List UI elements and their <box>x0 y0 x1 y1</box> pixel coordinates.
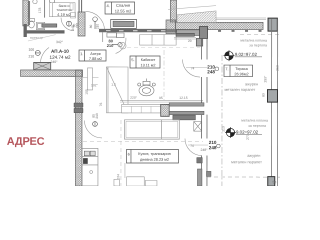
door entrance arc <box>40 47 49 66</box>
door bathroom arc <box>61 18 74 31</box>
band white ticks <box>106 30 197 33</box>
svg-text:74: 74 <box>190 144 194 148</box>
wall east double lines <box>201 39 207 187</box>
svg-text:248: 248 <box>209 145 217 150</box>
svg-text:220°: 220° <box>130 96 138 100</box>
wall cabinet south line <box>120 100 203 102</box>
svg-text:260: 260 <box>276 65 280 71</box>
wall piers <box>74 103 83 107</box>
svg-text:7.: 7. <box>225 67 228 71</box>
dashed lines kitchen <box>83 140 203 142</box>
svg-text:240°: 240° <box>51 60 59 64</box>
wall hatch vertical kitchen west <box>75 70 82 186</box>
svg-text:12.15: 12.15 <box>179 96 187 100</box>
window bars living east <box>169 103 204 106</box>
window bars bedroom east <box>176 33 194 36</box>
svg-text:5.: 5. <box>131 58 134 62</box>
sofa <box>122 104 161 113</box>
label bathroom <box>49 0 75 17</box>
dining table <box>124 120 179 139</box>
svg-text:104: 104 <box>116 174 120 180</box>
svg-text:Спалня: Спалня <box>116 3 130 8</box>
svg-text:9.02=97.02: 9.02=97.02 <box>235 52 258 57</box>
dresser bedroom <box>111 19 137 28</box>
svg-text:155: 155 <box>85 89 89 95</box>
wall top right vertical <box>166 0 177 34</box>
svg-text:метален парапет: метален парапет <box>225 87 256 92</box>
benchmark bottom <box>225 127 262 138</box>
svg-text:за пергола: за пергола <box>249 43 267 47</box>
corner block NE <box>200 27 208 39</box>
svg-text:9.02=97.02: 9.02=97.02 <box>236 130 259 135</box>
bottom tables <box>124 163 126 178</box>
railing right double lines <box>271 19 273 186</box>
svg-text:метален парапет: метален парапет <box>231 159 262 164</box>
door bedroom arc <box>86 11 105 30</box>
antre shelves <box>103 32 124 42</box>
svg-text:АДРЕС: АДРЕС <box>7 136 45 148</box>
wall L dark elevator core <box>24 24 65 37</box>
wall hatch band bottom-left <box>21 70 83 77</box>
svg-text:100: 100 <box>29 48 35 52</box>
svg-text:80: 80 <box>261 93 265 97</box>
svg-text:102°: 102° <box>91 83 99 87</box>
terrace bottom left blocks <box>197 158 203 164</box>
svg-text:270: 270 <box>246 134 250 140</box>
window box east <box>194 122 202 132</box>
corridor line <box>82 77 99 79</box>
svg-text:20: 20 <box>188 39 192 43</box>
svg-text:13.11 м2: 13.11 м2 <box>141 64 156 68</box>
label antre <box>79 50 106 61</box>
svg-text:74: 74 <box>191 67 195 71</box>
wall terrace north checkered band <box>176 22 264 29</box>
label cabinet room <box>130 56 160 68</box>
desk cabinet room <box>120 34 177 49</box>
wall bathroom inner vertical <box>44 0 46 18</box>
svg-text:210: 210 <box>95 113 99 119</box>
entrance threshold X box <box>34 62 51 69</box>
door antre-cabinet <box>116 38 126 54</box>
wardrobe with diagonal <box>106 67 128 113</box>
svg-text:26.96м2: 26.96м2 <box>234 72 248 76</box>
wall bedroom west top lines <box>78 0 80 12</box>
svg-text:210: 210 <box>107 43 114 48</box>
svg-text:248°: 248° <box>200 148 208 152</box>
kitchen counter <box>82 148 98 186</box>
wall bedroom west checkered <box>78 12 85 36</box>
stove symbol <box>138 78 156 95</box>
svg-text:290°: 290° <box>264 75 268 83</box>
door terrace 2 <box>185 139 202 156</box>
svg-text:метална колона: метална колона <box>240 39 267 43</box>
terrace dashed south <box>207 176 280 178</box>
column bottom right <box>268 177 275 187</box>
thin double lines top right <box>216 17 266 19</box>
wall gray band below <box>177 30 204 36</box>
bath fixtures right <box>71 12 76 18</box>
svg-text:за пергола: за пергола <box>248 124 266 128</box>
svg-text:дневна 28.23 м2: дневна 28.23 м2 <box>140 158 169 162</box>
svg-text:1.2: 1.2 <box>111 83 116 87</box>
svg-text:342°: 342° <box>56 40 64 44</box>
benchmark top <box>224 50 263 61</box>
bathroom fixtures <box>29 0 45 30</box>
svg-text:348: 348 <box>71 25 75 31</box>
door kitchen arc <box>84 120 102 138</box>
svg-text:Тераса: Тераса <box>235 67 248 71</box>
label kitchen <box>126 149 178 163</box>
svg-text:Антре: Антре <box>90 52 101 56</box>
svg-text:6: 6 <box>128 152 130 156</box>
wall bedroom south dark band <box>99 29 177 32</box>
svg-text:1.: 1. <box>80 52 83 56</box>
svg-text:178: 178 <box>38 8 42 14</box>
svg-text:210: 210 <box>96 24 100 30</box>
svg-text:210: 210 <box>29 54 35 58</box>
svg-text:248: 248 <box>207 69 215 74</box>
door terrace 1 <box>183 60 201 78</box>
pergola column top right <box>268 18 277 31</box>
label bedroom <box>105 2 135 14</box>
svg-text:50: 50 <box>272 180 276 184</box>
roof diagonal hatch wedge <box>177 11 216 23</box>
cabinet antre <box>88 68 93 90</box>
svg-text:ажурен: ажурен <box>245 81 258 86</box>
svg-text:12.55 m2: 12.55 m2 <box>115 8 132 13</box>
label terrace <box>224 65 253 77</box>
wall checkered west bathroom <box>23 0 30 26</box>
svg-text:210: 210 <box>221 126 225 132</box>
svg-text:76: 76 <box>99 102 103 106</box>
column stub below <box>196 39 202 47</box>
radiator bedroom-bath <box>42 24 57 27</box>
svg-text:метална колона: метална колона <box>241 119 268 123</box>
svg-text:Кухня, трапезария: Кухня, трапезария <box>138 152 170 156</box>
svg-text:7.88 м2: 7.88 м2 <box>89 57 102 61</box>
svg-text:АП.А-10: АП.А-10 <box>51 49 69 54</box>
svg-text:80: 80 <box>89 24 93 28</box>
railing posts dashes <box>218 30 263 32</box>
svg-text:95: 95 <box>159 96 163 100</box>
pergola dashdot vertical <box>221 55 223 186</box>
svg-text:Кабинет: Кабинет <box>141 58 156 62</box>
svg-text:ажурен: ажурен <box>247 153 260 158</box>
svg-text:4.: 4. <box>107 3 110 8</box>
column checker mid <box>161 104 170 116</box>
svg-text:4.19 м2: 4.19 м2 <box>57 12 72 17</box>
